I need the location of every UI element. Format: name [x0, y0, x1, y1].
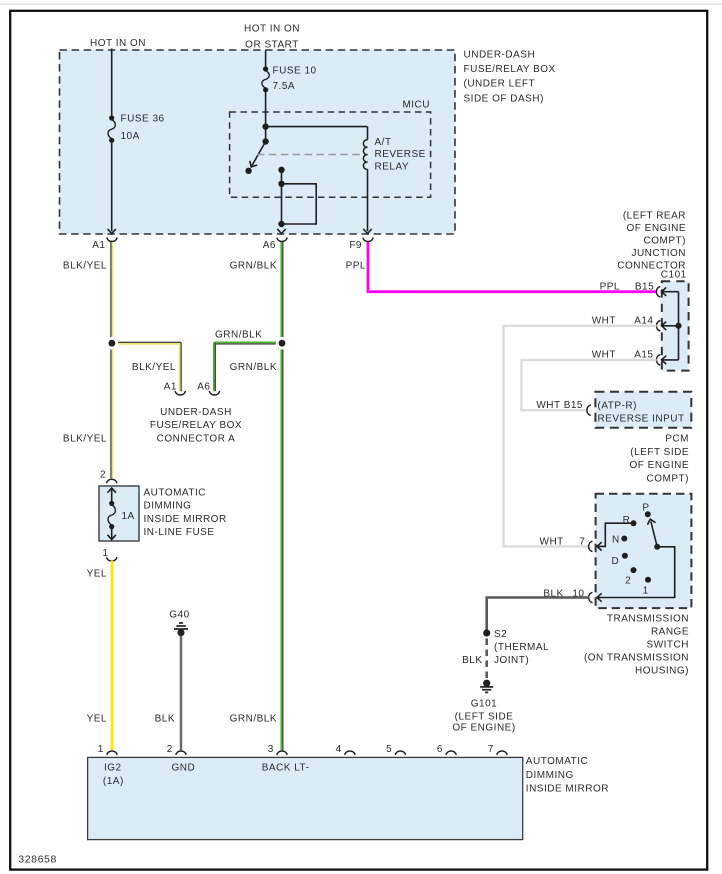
- relay coil K1 (A/T REVERSE RELAY): [367, 127, 369, 140]
- svg-text:1: 1: [103, 548, 109, 559]
- TRS contact 1: [645, 577, 651, 583]
- svg-text:FUSE/RELAY BOX: FUSE/RELAY BOX: [464, 64, 556, 75]
- svg-text:FUSE 36: FUSE 36: [121, 113, 165, 124]
- svg-text:2: 2: [625, 576, 631, 587]
- C101 internal bus: [678, 292, 680, 360]
- relay switch arm: [262, 138, 268, 144]
- ground G101: [483, 680, 490, 687]
- svg-text:GND: GND: [172, 763, 196, 774]
- svg-text:INSIDE MIRROR: INSIDE MIRROR: [144, 514, 227, 525]
- in-line fuse F (1A): [108, 488, 116, 493]
- svg-text:A6: A6: [263, 240, 276, 251]
- relay contact (NO, to A6): [278, 167, 284, 173]
- svg-text:YEL: YEL: [87, 568, 107, 579]
- wire from fuse 10 into MICU: [265, 92, 267, 141]
- svg-text:PPL: PPL: [600, 281, 620, 292]
- TRS contact R: [631, 520, 637, 526]
- wire BLK from TRS pin 10 to S2: [487, 598, 589, 631]
- svg-text:YEL: YEL: [87, 714, 107, 725]
- svg-text:R: R: [623, 515, 631, 526]
- svg-text:COMPT): COMPT): [644, 235, 686, 246]
- svg-text:RELAY: RELAY: [375, 162, 410, 173]
- page top rule: [0, 4, 722, 5]
- junction connector C101 box: [662, 281, 689, 370]
- wire GRN/BLK branch to connector A (A6): [215, 341, 283, 343]
- svg-text:1: 1: [98, 744, 104, 755]
- svg-text:BLK: BLK: [462, 655, 482, 666]
- wire BLK/YEL from A1 down: [110, 242, 112, 478]
- junction on GRN/BLK wire: [276, 337, 288, 349]
- splice S2 (thermal joint): [483, 629, 490, 636]
- svg-text:IG2: IG2: [104, 763, 122, 774]
- svg-text:2: 2: [167, 744, 173, 755]
- svg-text:BLK: BLK: [155, 714, 175, 725]
- relay mechanical link (dashed): [257, 154, 363, 156]
- svg-text:N: N: [612, 535, 620, 546]
- wire from HOT IN ON to fuse 36: [111, 49, 113, 116]
- MICU box: [230, 112, 431, 197]
- in-line fuse box: [99, 486, 139, 541]
- svg-text:(1A): (1A): [103, 776, 124, 787]
- svg-text:GRN/BLK: GRN/BLK: [230, 714, 277, 725]
- svg-text:FUSE 10: FUSE 10: [273, 65, 317, 76]
- svg-text:REVERSE INPUT: REVERSE INPUT: [598, 414, 685, 425]
- svg-text:(THERMAL: (THERMAL: [494, 642, 549, 653]
- svg-text:P: P: [642, 502, 649, 513]
- TRS pin7 to R contact: [597, 523, 631, 546]
- svg-text:C101: C101: [661, 269, 687, 280]
- svg-text:10A: 10A: [121, 131, 140, 142]
- svg-text:GRN/BLK: GRN/BLK: [215, 329, 262, 340]
- wire relay contact to A6 with loop: [281, 170, 283, 224]
- svg-text:A6: A6: [197, 382, 210, 393]
- svg-text:CONNECTOR A: CONNECTOR A: [157, 433, 236, 444]
- svg-text:2: 2: [100, 470, 106, 481]
- wire WHT from C101 A15 to PCM ATP-R input: [522, 360, 657, 410]
- svg-text:B15: B15: [635, 281, 654, 292]
- svg-text:(ON TRANSMISSION: (ON TRANSMISSION: [584, 653, 689, 664]
- svg-text:AUTOMATIC: AUTOMATIC: [526, 756, 588, 767]
- svg-text:G40: G40: [169, 609, 189, 620]
- connector A terminal A1: [175, 391, 185, 395]
- fuse F10 (FUSE 10 7.5A): [263, 66, 268, 71]
- svg-text:OF ENGINE: OF ENGINE: [626, 223, 686, 234]
- svg-text:7.5A: 7.5A: [273, 81, 296, 92]
- svg-text:AUTOMATIC: AUTOMATIC: [144, 488, 206, 499]
- svg-text:UNDER-DASH: UNDER-DASH: [160, 407, 232, 418]
- svg-text:UNDER-DASH: UNDER-DASH: [464, 49, 536, 60]
- dashed BLK wire S2 to G101: [485, 639, 488, 679]
- node relay feed junction: [262, 123, 268, 129]
- svg-text:(ATP-R): (ATP-R): [598, 401, 637, 412]
- svg-text:PPL: PPL: [346, 261, 366, 272]
- svg-text:1A: 1A: [122, 511, 135, 522]
- wire WHT from C101 A14 to transmission range switch pin 7: [504, 326, 657, 547]
- TRS contact P: [645, 511, 651, 517]
- svg-text:OR START: OR START: [245, 39, 299, 50]
- transmission range switch box: [596, 494, 692, 608]
- svg-text:DIMMING: DIMMING: [144, 501, 192, 512]
- svg-text:WHT: WHT: [540, 537, 564, 548]
- svg-text:4: 4: [336, 744, 342, 755]
- svg-text:OF ENGINE): OF ENGINE): [452, 723, 515, 734]
- svg-text:DIMMING: DIMMING: [526, 770, 574, 781]
- svg-text:BLK/YEL: BLK/YEL: [132, 362, 176, 373]
- svg-text:IN-LINE FUSE: IN-LINE FUSE: [144, 527, 215, 538]
- svg-text:(LEFT SIDE: (LEFT SIDE: [455, 711, 514, 722]
- PCM (ATP-R) REVERSE INPUT box: [595, 392, 691, 428]
- svg-text:1: 1: [643, 586, 649, 597]
- wire relay feed to coil: [266, 126, 368, 128]
- svg-text:BACK LT-: BACK LT-: [262, 763, 310, 774]
- wire BLK/YEL branch to connector A (A1): [112, 341, 181, 343]
- svg-text:INSIDE MIRROR: INSIDE MIRROR: [526, 784, 609, 795]
- svg-text:BLK/YEL: BLK/YEL: [63, 433, 107, 444]
- svg-text:WHT B15: WHT B15: [536, 400, 583, 411]
- fuse F36 (FUSE 36 10A): [109, 115, 114, 120]
- svg-text:6: 6: [437, 744, 443, 755]
- automatic dimming inside mirror box: [88, 757, 523, 839]
- TRS contact D: [622, 553, 628, 559]
- wire from HOT IN ON OR START to fuse 10: [265, 51, 267, 67]
- TRS contact 2: [631, 567, 637, 573]
- svg-text:BLK/YEL: BLK/YEL: [63, 261, 107, 272]
- svg-text:D: D: [611, 556, 619, 567]
- svg-text:3: 3: [268, 744, 274, 755]
- under-dash fuse/relay box: [60, 50, 456, 234]
- svg-text:328658: 328658: [18, 854, 57, 866]
- svg-text:OF ENGINE: OF ENGINE: [629, 460, 689, 471]
- TRS selector arm (points to P): [654, 544, 660, 550]
- wire PPL from F9 to junction connector C101: [367, 242, 370, 290]
- wire BLK from G40 to mirror pin 2: [180, 636, 183, 750]
- relay contact (NC, open): [245, 168, 251, 174]
- svg-text:(LEFT SIDE: (LEFT SIDE: [630, 447, 689, 458]
- wire GRN/BLK from A6 down to mirror pin 3: [280, 242, 282, 750]
- wire relay coil to connector F9: [367, 169, 369, 231]
- svg-text:A/T: A/T: [375, 137, 392, 148]
- svg-text:5: 5: [386, 744, 392, 755]
- svg-text:RANGE: RANGE: [651, 627, 689, 638]
- svg-text:REVERSE: REVERSE: [375, 149, 426, 160]
- connector A terminal A6: [209, 391, 219, 395]
- svg-text:7: 7: [488, 744, 494, 755]
- junction on BLK/YEL wire: [106, 337, 118, 349]
- svg-text:SIDE OF DASH): SIDE OF DASH): [464, 93, 544, 104]
- svg-text:FUSE/RELAY BOX: FUSE/RELAY BOX: [150, 420, 242, 431]
- svg-text:A1: A1: [164, 382, 177, 393]
- svg-text:JOINT): JOINT): [494, 655, 529, 666]
- svg-text:HOT IN ON: HOT IN ON: [90, 38, 146, 49]
- svg-text:PCM: PCM: [665, 434, 689, 445]
- svg-text:HOT IN ON: HOT IN ON: [244, 24, 300, 35]
- svg-text:GRN/BLK: GRN/BLK: [230, 362, 277, 373]
- svg-text:G101: G101: [471, 698, 497, 709]
- svg-text:(LEFT REAR: (LEFT REAR: [623, 211, 686, 222]
- svg-text:(UNDER LEFT: (UNDER LEFT: [464, 79, 536, 90]
- svg-text:COMPT): COMPT): [647, 473, 689, 484]
- TRS contact N: [621, 536, 627, 542]
- svg-text:HOUSING): HOUSING): [635, 666, 689, 677]
- svg-text:F9: F9: [349, 240, 362, 251]
- svg-text:S2: S2: [494, 629, 507, 640]
- svg-text:JUNCTION: JUNCTION: [631, 248, 686, 259]
- wire from fuse 36 to connector A1: [111, 143, 113, 231]
- svg-text:SWITCH: SWITCH: [647, 640, 689, 651]
- TRS arm to terminal 10: [597, 547, 675, 598]
- svg-text:GRN/BLK: GRN/BLK: [230, 261, 277, 272]
- svg-text:7: 7: [579, 537, 585, 548]
- wire YEL from in-line fuse to mirror pin 1: [111, 561, 114, 751]
- svg-text:A1: A1: [92, 240, 105, 251]
- svg-text:TRANSMISSION: TRANSMISSION: [607, 614, 689, 625]
- svg-text:MICU: MICU: [402, 100, 430, 111]
